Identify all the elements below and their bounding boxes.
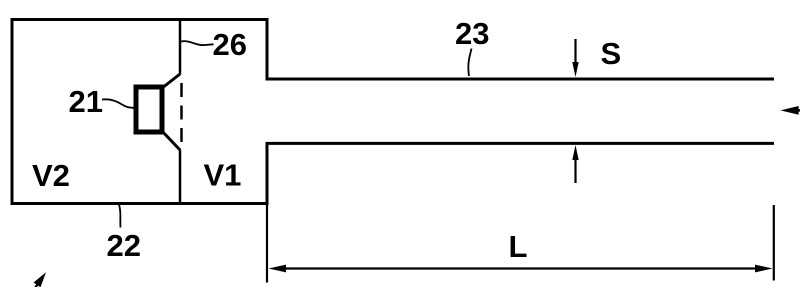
duct top wall 23 xyxy=(266,78,775,81)
L dimension left arrowhead xyxy=(269,265,287,273)
bottom-left sound direction arrow shaft xyxy=(30,285,38,292)
leader line for 26 xyxy=(181,41,214,45)
L dimension right extension line xyxy=(773,205,775,281)
svg-text:V2: V2 xyxy=(32,158,70,193)
partition wall 26 lower segment xyxy=(179,150,182,204)
L dimension line xyxy=(280,267,760,269)
svg-text:L: L xyxy=(509,229,528,264)
loudspeaker cone bottom line xyxy=(162,131,181,151)
svg-text:23: 23 xyxy=(455,16,489,51)
dashed aperture line in partition xyxy=(180,77,183,148)
S dimension down arrowhead xyxy=(572,62,578,77)
svg-text:S: S xyxy=(601,36,622,71)
svg-text:21: 21 xyxy=(69,84,103,119)
L dimension left extension line xyxy=(266,205,268,283)
duct mouth arrow (right edge) xyxy=(781,106,799,115)
loudspeaker driver 21 magnet xyxy=(136,87,162,132)
duct bottom wall xyxy=(266,142,775,145)
leader line for 23 xyxy=(468,49,471,77)
leader line for 22 xyxy=(119,205,121,228)
svg-text:V1: V1 xyxy=(204,158,242,193)
svg-text:22: 22 xyxy=(107,228,141,263)
duct mouth arrow shaft stub xyxy=(797,109,800,111)
loudspeaker cone top line xyxy=(162,74,181,89)
svg-text:26: 26 xyxy=(213,27,247,62)
L dimension right arrowhead xyxy=(755,265,773,273)
S dimension up arrow shaft xyxy=(574,156,576,183)
S dimension up arrowhead xyxy=(572,145,578,160)
bottom-left sound direction arrowhead xyxy=(34,272,46,287)
partition wall 26 upper segment xyxy=(179,20,182,75)
S dimension down arrow shaft xyxy=(574,39,576,66)
leader line for 21 xyxy=(102,99,135,107)
enclosure box (outer cabinet) xyxy=(12,20,267,204)
